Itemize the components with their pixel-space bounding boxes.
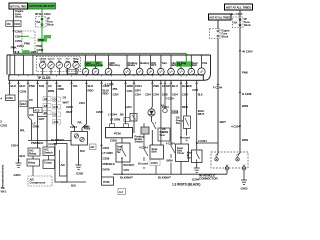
label 4 C204 on sensor wire	[166, 98, 174, 101]
wire W14 to seat belt timer	[180, 80, 189, 144]
wire W5 with pin boxes	[51, 80, 64, 143]
svg-text:Sw: Sw	[117, 151, 121, 154]
svg-text:15A: 15A	[36, 21, 40, 24]
wire W3 with junction box	[34, 80, 45, 148]
svg-text:C8: C8	[44, 104, 48, 108]
wire labels mid-left	[63, 96, 74, 110]
svg-text:G202: G202	[241, 187, 248, 191]
svg-text:HOT AT ALL TIMES: HOT AT ALL TIMES	[210, 15, 231, 19]
svg-text:RED: RED	[88, 89, 94, 93]
svg-text:C208: C208	[192, 89, 198, 92]
svg-text:C204: C204	[15, 34, 22, 38]
svg-text:Comp: Comp	[44, 161, 52, 165]
svg-text:Switch: Switch	[135, 140, 144, 144]
svg-text:C8: C8	[53, 113, 57, 117]
lamp L2 oil warning (highlighted)	[92, 55, 103, 75]
svg-text:C204: C204	[113, 94, 119, 97]
svg-text:RED: RED	[182, 105, 188, 109]
odometer symbol	[66, 70, 79, 74]
svg-text:BLK: BLK	[198, 94, 203, 97]
svg-text:Turn: Turn	[162, 61, 168, 65]
svg-text:C204: C204	[172, 110, 179, 114]
svg-text:C204: C204	[11, 144, 18, 148]
junction dots on highlighted wire	[15, 51, 20, 53]
svg-text:C6: C6	[48, 84, 52, 88]
svg-text:Chk: Chk	[202, 61, 208, 65]
component box (sender, dark)	[141, 123, 149, 134]
svg-text:CONNECTOR: CONNECTOR	[199, 177, 218, 181]
svg-text:B12: B12	[21, 102, 26, 106]
wire W12 + diode D1 (brake warning)	[148, 80, 160, 122]
svg-text:YEL: YEL	[73, 84, 79, 88]
gauge G5	[73, 62, 79, 75]
svg-text:BRN: BRN	[242, 104, 248, 108]
seat belt timer box	[176, 144, 189, 174]
svg-text:C204: C204	[182, 94, 188, 97]
corner note text	[1, 187, 7, 194]
wire W0 to connector C201	[8, 80, 17, 95]
caption dashed box (bottom left)	[28, 176, 52, 186]
svg-text:GRY: GRY	[166, 85, 171, 88]
PCM box	[106, 128, 133, 138]
svg-text:freeautomechanic: freeautomechanic	[1, 164, 5, 188]
svg-text:PNK: PNK	[24, 42, 31, 46]
svg-text:C208: C208	[110, 139, 117, 143]
svg-text:C50: C50	[177, 63, 182, 67]
svg-text:PNK: PNK	[29, 84, 36, 88]
svg-text:PPL: PPL	[78, 122, 83, 125]
svg-text:Block: Block	[15, 15, 22, 19]
svg-text:Spd: Spd	[160, 132, 165, 134]
svg-text:BRN: BRN	[167, 159, 173, 163]
header box HOT AT ALL TIMES (top left)	[9, 3, 28, 9]
svg-text:40 C204: 40 C204	[242, 50, 253, 54]
wire W13c to SW2	[170, 80, 179, 146]
fuse IP fuse block (right, dashed)	[233, 17, 252, 28]
svg-text:C206: C206	[15, 39, 22, 43]
svg-text:4 C204: 4 C204	[166, 98, 174, 101]
svg-text:BLK/WHT: BLK/WHT	[158, 176, 171, 180]
svg-text:1.3 W/STD (BLACK): 1.3 W/STD (BLACK)	[172, 183, 200, 187]
wire from green header to IP fuse (highlighted)	[35, 9, 51, 17]
instrument cluster box	[7, 55, 211, 80]
svg-text:BLK: BLK	[80, 150, 85, 153]
svg-text:BLK: BLK	[20, 84, 27, 88]
svg-text:Delay: Delay	[28, 161, 36, 165]
svg-text:C204: C204	[124, 169, 130, 172]
label 4 C204 (mid)	[105, 83, 114, 87]
svg-text:BRN: BRN	[242, 138, 248, 142]
svg-text:C206: C206	[20, 90, 27, 94]
svg-text:C204: C204	[127, 90, 133, 93]
svg-text:B4: B4	[44, 111, 48, 115]
component box K3	[43, 147, 55, 156]
svg-text:WHT: WHT	[220, 120, 227, 124]
svg-text:C204: C204	[17, 44, 24, 48]
svg-text:VIN 2: VIN 2	[1, 191, 7, 194]
svg-text:Sens: Sens	[160, 135, 166, 137]
svg-text:C201: C201	[6, 96, 13, 100]
svg-text:IP CLUS: IP CLUS	[38, 76, 51, 80]
wire IP fuse down to cluster (highlighted PNK)	[36, 27, 47, 54]
bottom center switch SW1	[138, 134, 148, 169]
engine fuse block label (left)	[14, 9, 24, 21]
svg-text:PNK/BLK: PNK/BLK	[31, 141, 44, 145]
bus wire bottom-left	[28, 141, 72, 146]
svg-text:C204: C204	[153, 94, 159, 97]
fuse GAGES 15A C204 (engine fuse block)	[6, 21, 21, 27]
wire W16 key-in switch	[196, 80, 219, 150]
svg-text:A12: A12	[34, 108, 40, 112]
svg-text:PCM: PCM	[103, 180, 110, 184]
caption 1.3L (BLACK)	[172, 183, 200, 187]
highlighted wire along cluster top to air bag lamp	[14, 50, 187, 62]
gauge G2	[48, 62, 54, 75]
connector box C201	[0, 95, 15, 101]
fuel gauge sender unit	[71, 125, 96, 165]
long wire right B (to DLC pin)	[231, 28, 253, 156]
wire color labels row 2 (right half)	[113, 80, 203, 116]
key-in switch box	[187, 150, 202, 163]
gauge G4	[64, 62, 70, 75]
svg-text:Brake: Brake	[128, 63, 136, 67]
svg-text:A11: A11	[53, 105, 58, 109]
lamp L10 seat belt	[188, 55, 198, 75]
lamp L8 high beam	[168, 55, 180, 75]
svg-text:C204: C204	[79, 102, 85, 105]
oil pressure switch box	[176, 55, 191, 136]
ground G203 (under fuel sender)	[76, 165, 84, 176]
wire W1 BLK to ground G204	[11, 80, 27, 163]
svg-text:C204: C204	[135, 84, 142, 88]
svg-text:Belt: Belt	[152, 150, 157, 154]
svg-text:4 C204: 4 C204	[166, 142, 175, 146]
svg-text:C208: C208	[15, 30, 22, 34]
svg-text:B+ C204: B+ C204	[231, 12, 243, 16]
svg-text:10A: 10A	[233, 21, 237, 24]
svg-text:4 C204: 4 C204	[48, 142, 57, 146]
svg-text:Ground: Ground	[138, 162, 148, 166]
svg-text:C6: C6	[29, 98, 33, 102]
svg-text:GRY: GRY	[39, 117, 45, 121]
lamp L7 turn	[158, 55, 168, 75]
wire bus to DLC pin	[226, 170, 228, 174]
lamp L1 fuel warning (highlighted)	[82, 55, 96, 75]
svg-text:C204: C204	[103, 146, 110, 150]
svg-text:Warning: Warning	[109, 63, 120, 67]
wire engine fuse down to cluster	[11, 26, 24, 53]
wire W4 with pin boxes	[38, 80, 58, 147]
svg-text:PNK: PNK	[242, 71, 249, 75]
label C204 above PCM	[125, 105, 132, 109]
svg-text:HOT IN RUN AND START: HOT IN RUN AND START	[29, 4, 55, 8]
svg-text:LT GRN: LT GRN	[103, 151, 113, 155]
svg-text:C204: C204	[151, 161, 158, 165]
svg-text:15A: 15A	[7, 23, 11, 26]
svg-text:4 C204: 4 C204	[139, 146, 148, 150]
svg-text:Pump: Pump	[84, 128, 91, 131]
junction box (speed sensor)	[158, 128, 170, 141]
svg-text:Block: Block	[222, 35, 229, 39]
junction box on wire W1	[20, 101, 27, 107]
svg-text:B6: B6	[120, 113, 124, 117]
svg-text:C204: C204	[125, 105, 132, 109]
data link connector (dashed)	[211, 152, 248, 170]
cluster internal feed wires	[10, 55, 33, 75]
svg-text:C204: C204	[70, 125, 77, 129]
svg-text:LT GRN: LT GRN	[110, 118, 120, 122]
svg-text:Timer: Timer	[177, 151, 185, 155]
svg-text:A13: A13	[53, 120, 58, 124]
svg-text:BLK: BLK	[182, 84, 189, 88]
wire W13	[160, 80, 169, 145]
svg-text:C204: C204	[66, 105, 73, 109]
svg-text:WHT: WHT	[63, 101, 70, 105]
svg-text:C204: C204	[31, 50, 38, 54]
svg-text:Switch: Switch	[44, 150, 53, 154]
wire labels mid (fuel feed)	[78, 102, 86, 125]
wire W8 serial data (long)	[96, 80, 116, 177]
svg-text:PNK/BLK: PNK/BLK	[103, 162, 116, 166]
svg-text:Warning: Warning	[85, 63, 96, 67]
lamp L6 O/D off	[147, 55, 157, 75]
header box HOT AT ALL TIMES (top right upper)	[225, 4, 253, 10]
svg-text:G203: G203	[76, 172, 83, 176]
svg-text:GRY: GRY	[135, 89, 141, 93]
lamp L5 battery	[136, 55, 150, 75]
svg-text:BRN: BRN	[48, 89, 54, 93]
svg-text:PNK: PNK	[38, 38, 45, 42]
svg-text:C204: C204	[145, 94, 151, 97]
wire W2 PNK with jog	[27, 80, 39, 140]
seat belt switch box (below PCM)	[116, 143, 135, 175]
lamp L11 check engine	[198, 55, 208, 75]
wire W9 into PCM	[108, 80, 120, 127]
ground G204 (right)	[192, 163, 200, 182]
wire W7 into fuel sender right	[82, 80, 94, 131]
svg-text:F C104: F C104	[213, 86, 222, 90]
svg-text:PNK: PNK	[153, 84, 160, 88]
svg-text:C204: C204	[135, 94, 141, 97]
svg-text:DATA: DATA	[103, 168, 111, 172]
relay box K1	[28, 147, 40, 156]
svg-text:HOT AT ALL TIMES: HOT AT ALL TIMES	[226, 5, 251, 9]
svg-text:4 C204: 4 C204	[231, 125, 240, 129]
wire W11 parking brake	[133, 80, 145, 143]
svg-text:GRN: GRN	[58, 87, 64, 91]
parking brake switch box	[130, 114, 137, 122]
gauge G1	[40, 62, 46, 75]
ground bus (bottom)	[113, 174, 227, 179]
svg-text:Block: Block	[244, 23, 251, 27]
wire W13b with sensor circle	[161, 80, 168, 112]
svg-text:WHT: WHT	[198, 112, 205, 116]
header box HOT IN RUN AND START (green, top left)	[29, 3, 56, 9]
svg-text:A5: A5	[161, 104, 165, 108]
svg-text:Compressor: Compressor	[30, 180, 47, 184]
svg-text:I/P B+ C204: I/P B+ C204	[35, 12, 51, 16]
sidebar watermark text	[1, 164, 5, 188]
svg-text:Lamp: Lamp	[96, 63, 104, 67]
svg-text:HOT AT ALL TIMES: HOT AT ALL TIMES	[10, 4, 27, 8]
svg-text:C204: C204	[172, 94, 178, 97]
svg-text:C208: C208	[96, 110, 103, 114]
ground G202 (DLC right)	[241, 170, 248, 191]
lamp L9 air bag (highlighted)	[176, 61, 192, 75]
svg-text:BLK/WHT: BLK/WHT	[124, 164, 135, 167]
svg-text:TAN: TAN	[39, 84, 45, 88]
gauge G3	[56, 62, 62, 75]
svg-text:C204: C204	[14, 23, 20, 26]
ground arrow label (above timer)	[180, 136, 190, 142]
svg-text:B C208: B C208	[242, 92, 252, 96]
svg-text:BLK/WHT: BLK/WHT	[120, 176, 133, 180]
svg-text:A/C: A/C	[61, 163, 66, 167]
svg-text:OFF: OFF	[151, 63, 157, 67]
switch SW2 (bottom, open)	[166, 142, 175, 175]
header box HOT AT ALL TIMES (top right lower)	[209, 14, 232, 20]
switch SW-A (below diode)	[152, 122, 156, 145]
svg-text:RED: RED	[103, 92, 109, 96]
wire W10 into PCM	[120, 80, 133, 127]
svg-text:C201: C201	[0, 124, 7, 128]
svg-text:BLK: BLK	[71, 185, 76, 188]
long wire right A (to DLC pin)	[213, 39, 226, 156]
component box K4	[43, 156, 55, 169]
DLC caption text	[199, 174, 218, 181]
svg-text:Battery: Battery	[140, 61, 150, 65]
svg-text:PPL: PPL	[20, 129, 26, 133]
svg-text:Block: Block	[47, 23, 54, 27]
wire labels right of pass-through box	[37, 35, 52, 52]
PCM label box (bottom)	[102, 177, 126, 195]
svg-text:BLK: BLK	[88, 84, 95, 88]
fuse engine fuse block (right, dashed)	[210, 20, 231, 39]
wire to IP fuse block (right)	[231, 10, 243, 17]
svg-text:Ground: Ground	[180, 136, 190, 140]
svg-text:C6: C6	[63, 96, 67, 100]
wire W6 to fuel sender	[66, 80, 78, 131]
svg-text:Belt: Belt	[192, 63, 197, 67]
svg-text:Relay: Relay	[29, 151, 37, 155]
connector pass-through box (dashed, center top-left)	[22, 31, 35, 52]
svg-text:BLK: BLK	[11, 84, 18, 88]
tall U box (A/C thermistor)	[55, 144, 67, 183]
svg-text:2 C204: 2 C204	[198, 139, 207, 143]
svg-text:A6: A6	[44, 97, 48, 101]
svg-text:PCM: PCM	[114, 132, 121, 136]
bottom center box B1	[150, 145, 164, 174]
svg-text:C6: C6	[53, 98, 57, 102]
wire below PCM to seat belt switch box	[110, 138, 122, 143]
svg-text:G204: G204	[14, 173, 21, 177]
lamp L3 ABS warning	[105, 55, 120, 75]
svg-text:BLK/WHT: BLK/WHT	[51, 138, 64, 142]
fuse GAGES 15A (dashed IP fuse block, top left)	[36, 17, 55, 28]
svg-text:BLU: BLU	[172, 84, 178, 88]
svg-text:BRN: BRN	[127, 84, 133, 88]
svg-text:BLK: BLK	[20, 154, 27, 158]
svg-text:C208: C208	[103, 157, 110, 161]
ground G204 (left)	[14, 163, 22, 177]
left edge connector label 2 C201	[0, 120, 7, 128]
lamp L4 parking brake	[124, 55, 138, 75]
ground bus under A/C box	[61, 182, 86, 188]
svg-text:WHT: WHT	[66, 110, 73, 114]
svg-text:PPL: PPL	[113, 87, 119, 91]
relay box K2	[27, 156, 40, 176]
gauges sub-box (dashed)	[37, 56, 81, 71]
svg-text:1 C204: 1 C204	[108, 113, 117, 117]
